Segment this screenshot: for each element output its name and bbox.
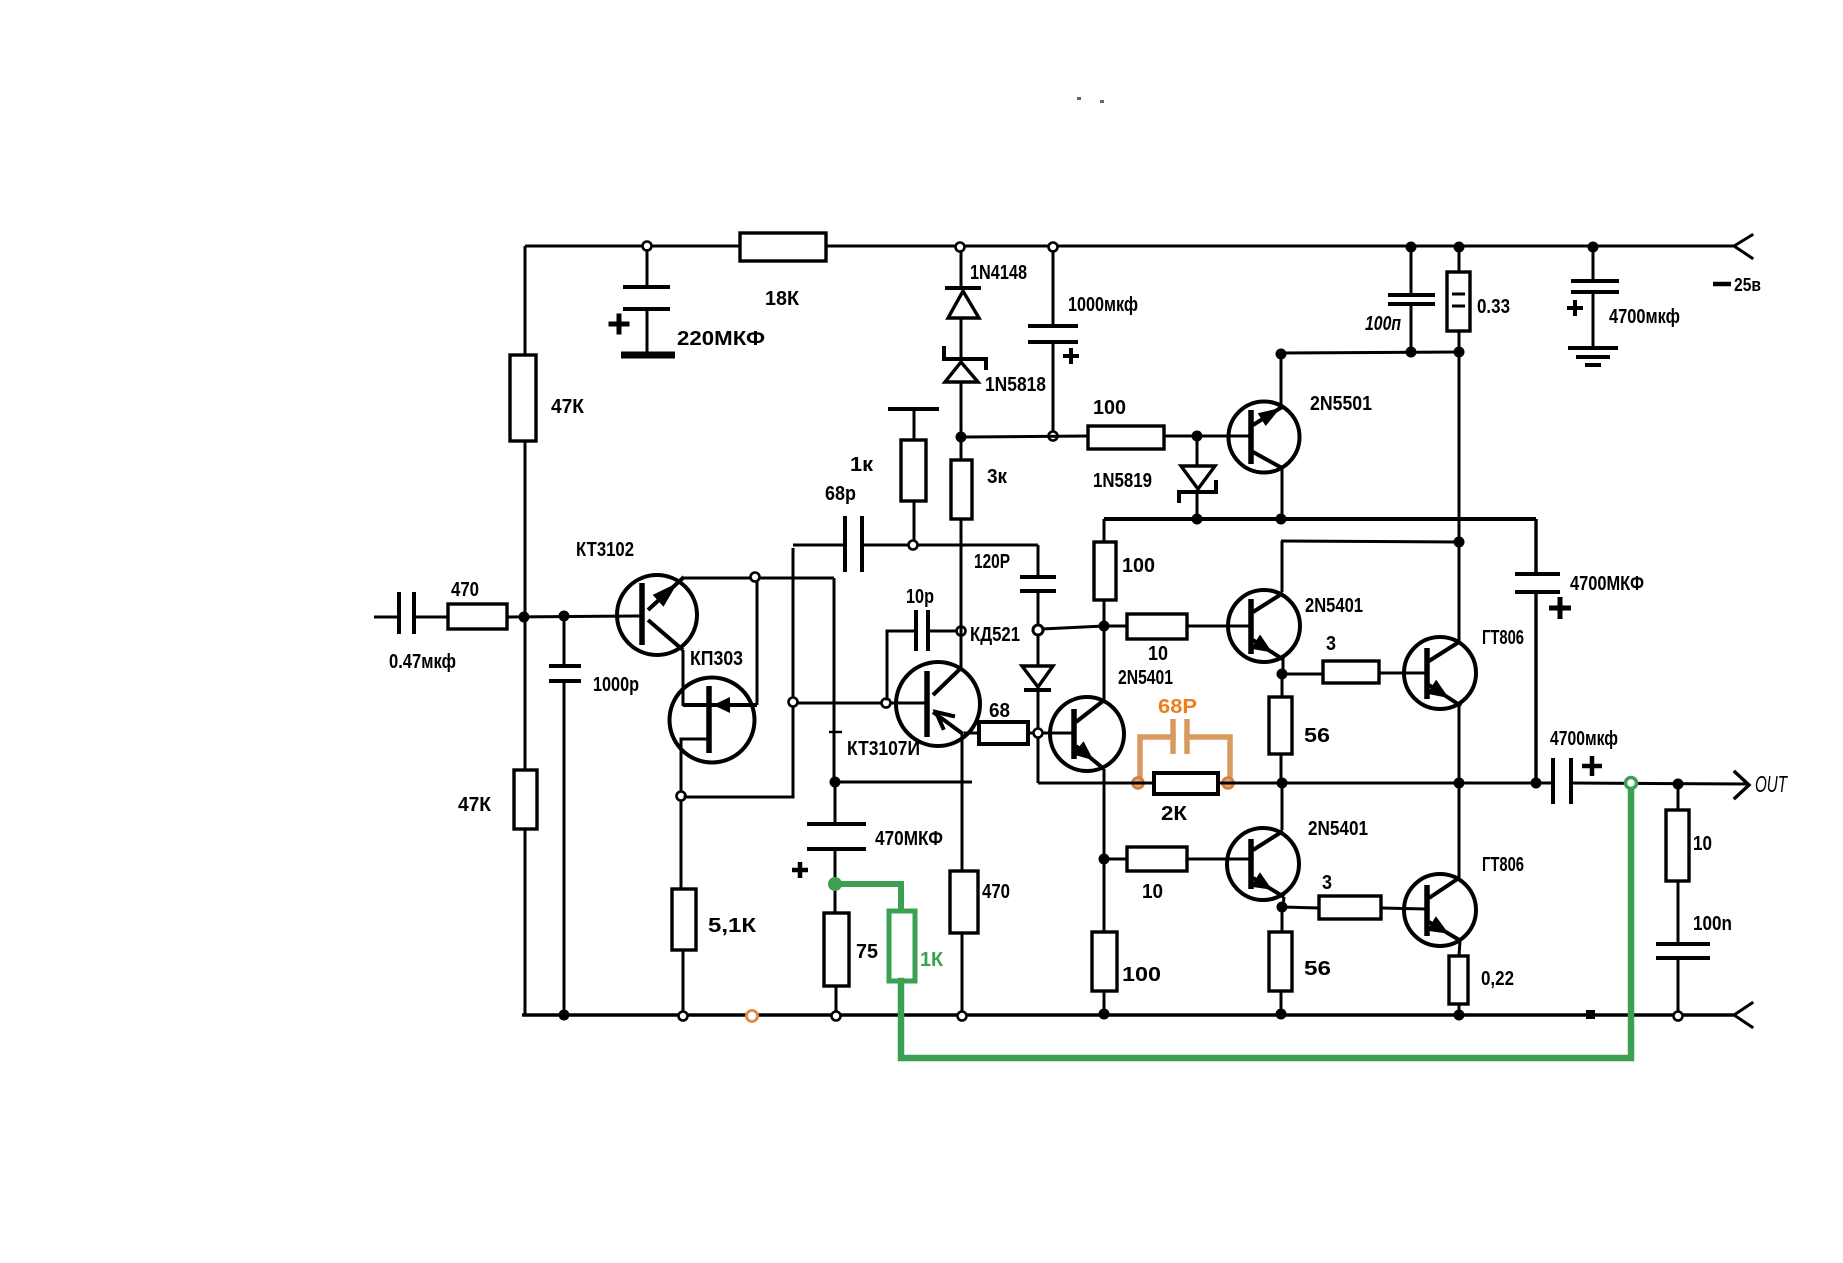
node 75 rail ring (832, 1012, 841, 1021)
transistor KT3102 Q1 (617, 575, 697, 655)
svg-text:2N5501: 2N5501 (1310, 393, 1372, 415)
capacitor 4700MKF mid (1534, 519, 1537, 574)
diode 1N4148 (960, 250, 963, 288)
node GT806 emitters junction (1454, 778, 1465, 789)
wire 10 to 2N5401 lower base (1187, 858, 1251, 861)
svg-text:68: 68 (989, 700, 1010, 722)
svg-text:10: 10 (1693, 833, 1712, 855)
svg-text:2N5401: 2N5401 (1118, 667, 1173, 689)
transistor KT3107I Q3 (896, 662, 980, 746)
wire GT806 lower collector up to OUT (1458, 783, 1461, 878)
wire KP303 source lead (681, 739, 709, 792)
wire 68p left riser (792, 548, 795, 698)
node 10p tap ring (882, 699, 891, 708)
node 4700MKF OUT junction (1531, 778, 1542, 789)
node upper emitter junction (1277, 669, 1288, 680)
node feedback junction (830, 777, 841, 788)
node green OUT ring (1626, 778, 1637, 789)
svg-text:68р: 68р (825, 483, 856, 505)
capacitor 220MKF (646, 249, 649, 287)
transistor 2N5401 upper Q6 (1228, 590, 1300, 662)
svg-text:25в: 25в (1734, 275, 1761, 295)
svg-text:10: 10 (1148, 643, 1168, 665)
node 18K left ring (643, 242, 652, 251)
resistor 2K (1154, 773, 1218, 794)
node bias top junction (1099, 621, 1110, 632)
node 100p rail junction (1406, 242, 1417, 253)
svg-text:0.47мкф: 0.47мкф (389, 651, 456, 673)
wire GT806 upper collector up (1458, 352, 1461, 641)
node base branch junction (559, 611, 570, 622)
wire 2N5501 collector up (1280, 354, 1283, 406)
wire 2N5501 collector row (1281, 352, 1459, 353)
node 2N5501 emitter junction (1276, 514, 1287, 525)
wire 100 vertical top lead (1103, 519, 1106, 542)
svg-text:КТ3107И: КТ3107И (847, 738, 920, 760)
resistor 10 upper (1127, 614, 1187, 639)
wire OUT rail left (1038, 782, 1154, 785)
capacitor 120R (1037, 545, 1040, 577)
svg-text:КТ3102: КТ3102 (576, 539, 634, 561)
wire KP303 drain up to KT3102 emitter wire (756, 577, 759, 705)
wire bias tap row (1042, 626, 1104, 629)
resistor 10 lower (1127, 847, 1187, 871)
wire KD521 node to OUT rail (1037, 738, 1040, 783)
resistor 75 (834, 884, 837, 913)
svg-text:100п: 100п (1365, 313, 1401, 335)
resistor 0,22 (1459, 941, 1460, 956)
wire top rail -25V (525, 245, 1734, 248)
artifact tick on feedback line (829, 731, 842, 734)
wire GT806 upper emitter to OUT (1458, 706, 1461, 783)
speck artifacts (1077, 97, 1081, 100)
node KD521 bottom ring (1034, 729, 1043, 738)
svg-text:1000мкф: 1000мкф (1068, 294, 1138, 316)
wire 2N5401 lower emitter down (1283, 897, 1284, 907)
wire 3k down to KT3107 collector (960, 519, 963, 668)
transistor GT806 lower Q9 (1404, 874, 1476, 946)
wire 2N5501 emitter down (1281, 468, 1284, 519)
wire bias row to 10 resistor (1104, 625, 1127, 628)
node 120R-KD521 ring (1033, 625, 1043, 635)
capacitor 100p (1410, 247, 1413, 295)
node 10p right ring (957, 627, 966, 636)
svg-text:100n: 100n (1693, 913, 1732, 935)
wire emitter to 3 resistor (1282, 673, 1323, 676)
svg-text:47К: 47К (458, 794, 492, 816)
svg-text:100: 100 (1122, 964, 1161, 986)
wire left vertical input bias column (524, 246, 527, 355)
wire driver rail y519 (1104, 517, 1536, 521)
resistor 0.33 (1458, 247, 1461, 272)
wire emitter to 3 lower (1282, 907, 1319, 908)
wire 2N5401 upper collector up (1281, 541, 1284, 592)
svg-text:КД521: КД521 (970, 624, 1020, 646)
node 0.33 bottom junction (1454, 347, 1465, 358)
wire green bootstrap run (901, 788, 1631, 1058)
svg-text:2N5401: 2N5401 (1305, 595, 1363, 617)
node drain junction ring (751, 573, 760, 582)
wire input cap to R470 (414, 616, 448, 619)
capacitor 68P compensation (1170, 719, 1176, 754)
svg-text:470: 470 (982, 881, 1010, 903)
ground symbol (1568, 346, 1618, 350)
resistor 470 mid (950, 871, 978, 933)
node 4700mkf top rail junction (1588, 242, 1599, 253)
wire 68p node to 120R corner (917, 544, 1038, 547)
capacitor 1000p input shunt (563, 617, 566, 666)
wire base wire KP303 to KT3107 (797, 702, 927, 705)
resistor 3k (960, 441, 963, 460)
wire 0,22 to bottom rail (1458, 1004, 1461, 1015)
resistor 100 (top row) (1088, 426, 1164, 449)
svg-text:4700мкф: 4700мкф (1609, 306, 1680, 328)
svg-text:1N5819: 1N5819 (1093, 470, 1152, 492)
resistor 56 lower (1281, 911, 1284, 932)
transistor 2N5401 bias Q5 (1103, 630, 1106, 700)
resistor 3 upper (1323, 661, 1379, 683)
svg-text:1000р: 1000р (593, 674, 639, 696)
svg-text:100: 100 (1093, 397, 1126, 419)
wire 100 to bottom rail (1103, 991, 1106, 1015)
wire source node to 68p branch riser (685, 707, 793, 797)
node 0.33 row junction (1454, 537, 1465, 548)
node 1000mkf bottom ring (1049, 432, 1058, 441)
node 3k top junction (956, 432, 967, 443)
capacitor 1000mkf (1052, 250, 1055, 326)
svg-text:0,22: 0,22 (1481, 968, 1514, 990)
resistor 10 output (1677, 784, 1680, 810)
wire 5.1K to bottom rail (682, 950, 685, 1015)
wire input lead (374, 616, 399, 619)
transistor GT806 upper Q7 (1404, 637, 1476, 709)
wire KT3107 emitter to 470 (961, 734, 964, 871)
svg-text:56: 56 (1304, 958, 1331, 980)
svg-text:18К: 18К (765, 288, 800, 310)
svg-text:1N4148: 1N4148 (970, 262, 1027, 284)
node 2N5501 collector junction (1276, 349, 1287, 360)
wire corner down to feedback node (833, 578, 836, 782)
node KP303 source ring (677, 792, 686, 801)
node stray mark bottom rail (1586, 1010, 1595, 1019)
wire bottom rail (ground return) (522, 1013, 1734, 1016)
resistor 470 input (448, 604, 507, 629)
net label -25v (1713, 282, 1731, 287)
svg-text:1К: 1К (920, 949, 944, 971)
svg-text:470МКФ: 470МКФ (875, 828, 943, 850)
node green tap dot (828, 877, 842, 891)
wire R470 to base node (507, 616, 642, 617)
resistor 1k (888, 407, 939, 411)
node 2N5401 lower collector junction (1277, 778, 1288, 789)
svg-text:0.33: 0.33 (1477, 296, 1510, 318)
resistor 47K lower (514, 770, 537, 829)
resistor 56 upper (1281, 678, 1284, 697)
wire KT3102 collector down to KP303 gate (682, 650, 685, 706)
svg-text:4700мкф: 4700мкф (1550, 728, 1618, 750)
diode KD521 (1022, 666, 1053, 687)
node base-wire left ring (789, 698, 798, 707)
capacitor 100n (1677, 881, 1680, 944)
svg-text:47К: 47К (551, 396, 585, 418)
node lower emitter junction (1277, 902, 1288, 913)
node diode chain top ring (956, 243, 965, 252)
transistor 2N5501 Q4 (1229, 402, 1300, 473)
wire OUT rail mid (1218, 782, 1553, 785)
transistor 2N5401 lower Q8 (1227, 828, 1299, 900)
wire 56 to OUT rail (1280, 754, 1283, 783)
svg-text:10: 10 (1142, 881, 1163, 903)
node 5.1K rail ring (679, 1012, 688, 1021)
svg-text:1N5818: 1N5818 (985, 374, 1046, 396)
wire green to 1K (835, 884, 901, 911)
node input junction (519, 612, 530, 623)
diode 1N5818 schottky (944, 348, 986, 368)
wire feedback tap y782 (835, 781, 972, 784)
wire 470 to bottom rail (961, 933, 964, 1015)
node 470 rail ring (958, 1012, 967, 1021)
wire OUT rail right (1571, 783, 1747, 784)
node 1000mkf top ring (1049, 243, 1058, 252)
node output tap junction (1673, 779, 1684, 790)
wire 10 to 2N5401 upper base (1187, 625, 1251, 628)
wire KT3102 emitter to corner (684, 577, 834, 580)
node lower base row junction (1099, 854, 1110, 865)
wire 56 to bottom rail (1280, 991, 1283, 1015)
svg-text:120Р: 120Р (974, 551, 1010, 573)
node 2K left orange ring (1133, 778, 1144, 789)
resistor 47K upper (510, 355, 536, 441)
svg-text:3к: 3к (987, 466, 1008, 488)
node 1N5819 top junction (1192, 431, 1203, 442)
svg-text:5,1К: 5,1К (708, 915, 757, 937)
svg-text:10р: 10р (906, 586, 934, 608)
wire bias emitter down (1103, 769, 1106, 859)
svg-text:56: 56 (1304, 725, 1330, 747)
svg-text:КП303: КП303 (690, 648, 743, 670)
diode 1N5819 schottky (1196, 440, 1199, 466)
resistor 18K (740, 233, 826, 261)
capacitor 4700mkf output (1551, 758, 1555, 804)
wire lower base row (1104, 858, 1127, 861)
capacitor 4700mkf top (1592, 247, 1595, 281)
svg-text:3: 3 (1326, 633, 1336, 655)
node 68p right ring (909, 541, 918, 550)
svg-text:ГТ806: ГТ806 (1482, 854, 1524, 876)
capacitor 470MKF (834, 782, 837, 824)
wire Vref row (965, 436, 1088, 437)
node 100n rail ring (1674, 1012, 1683, 1021)
svg-text:ГТ806: ГТ806 (1482, 627, 1524, 649)
wire 5.1K top lead (680, 800, 683, 889)
node 1000p bottom rail junction (559, 1010, 570, 1021)
node 2K right orange ring (1223, 778, 1234, 789)
svg-text:OUT: OUT (1755, 771, 1788, 797)
wire 100 bottom lead (1103, 600, 1106, 626)
node 56 rail junction (1276, 1009, 1287, 1020)
svg-text:470: 470 (451, 579, 479, 601)
node orange rail ring (747, 1011, 758, 1022)
svg-text:2N5401: 2N5401 (1308, 818, 1368, 840)
wire 1000p to bottom rail (563, 681, 566, 1015)
svg-text:75: 75 (856, 941, 878, 963)
wire 3 to GT806 upper base (1379, 672, 1427, 675)
svg-text:3: 3 (1322, 872, 1332, 894)
wire 2N5401 lower collector up to OUT (1281, 783, 1284, 830)
wire 2N5401 upper emitter down (1282, 660, 1285, 674)
node GT806 rail junction (1454, 1010, 1465, 1021)
resistor 68 (964, 732, 979, 735)
svg-text:4700МКФ: 4700МКФ (1570, 573, 1644, 595)
node 100 rail junction (1099, 1009, 1110, 1020)
node 0.33 rail junction (1454, 242, 1465, 253)
resistor 5,1K (672, 889, 696, 950)
wire 2N5401 upper collector row (1281, 541, 1459, 542)
transistor KP303 Q2 jfet (670, 678, 755, 763)
resistor 100 mid (1094, 542, 1116, 600)
resistor 1K green (889, 911, 915, 981)
capacitor 68p (793, 544, 845, 547)
svg-text:100: 100 (1122, 555, 1155, 577)
svg-text:1к: 1к (850, 454, 874, 476)
node 100p bottom junction (1406, 347, 1417, 358)
resistor 100 bottom (1103, 859, 1106, 932)
wire 3 to GT806 lower base (1381, 908, 1427, 909)
svg-text:68P: 68P (1158, 696, 1197, 718)
capacitor 0.47mkf input (397, 592, 401, 634)
svg-text:220МКФ: 220МКФ (677, 328, 765, 350)
node 1N5819 bottom junction (1192, 514, 1203, 525)
resistor 3 lower (1319, 896, 1381, 919)
wire 100 to 2N5501 base (1164, 435, 1251, 438)
svg-text:2К: 2К (1161, 803, 1188, 825)
wire 75 to bottom rail (835, 986, 838, 1015)
capacitor 10p (887, 631, 916, 699)
